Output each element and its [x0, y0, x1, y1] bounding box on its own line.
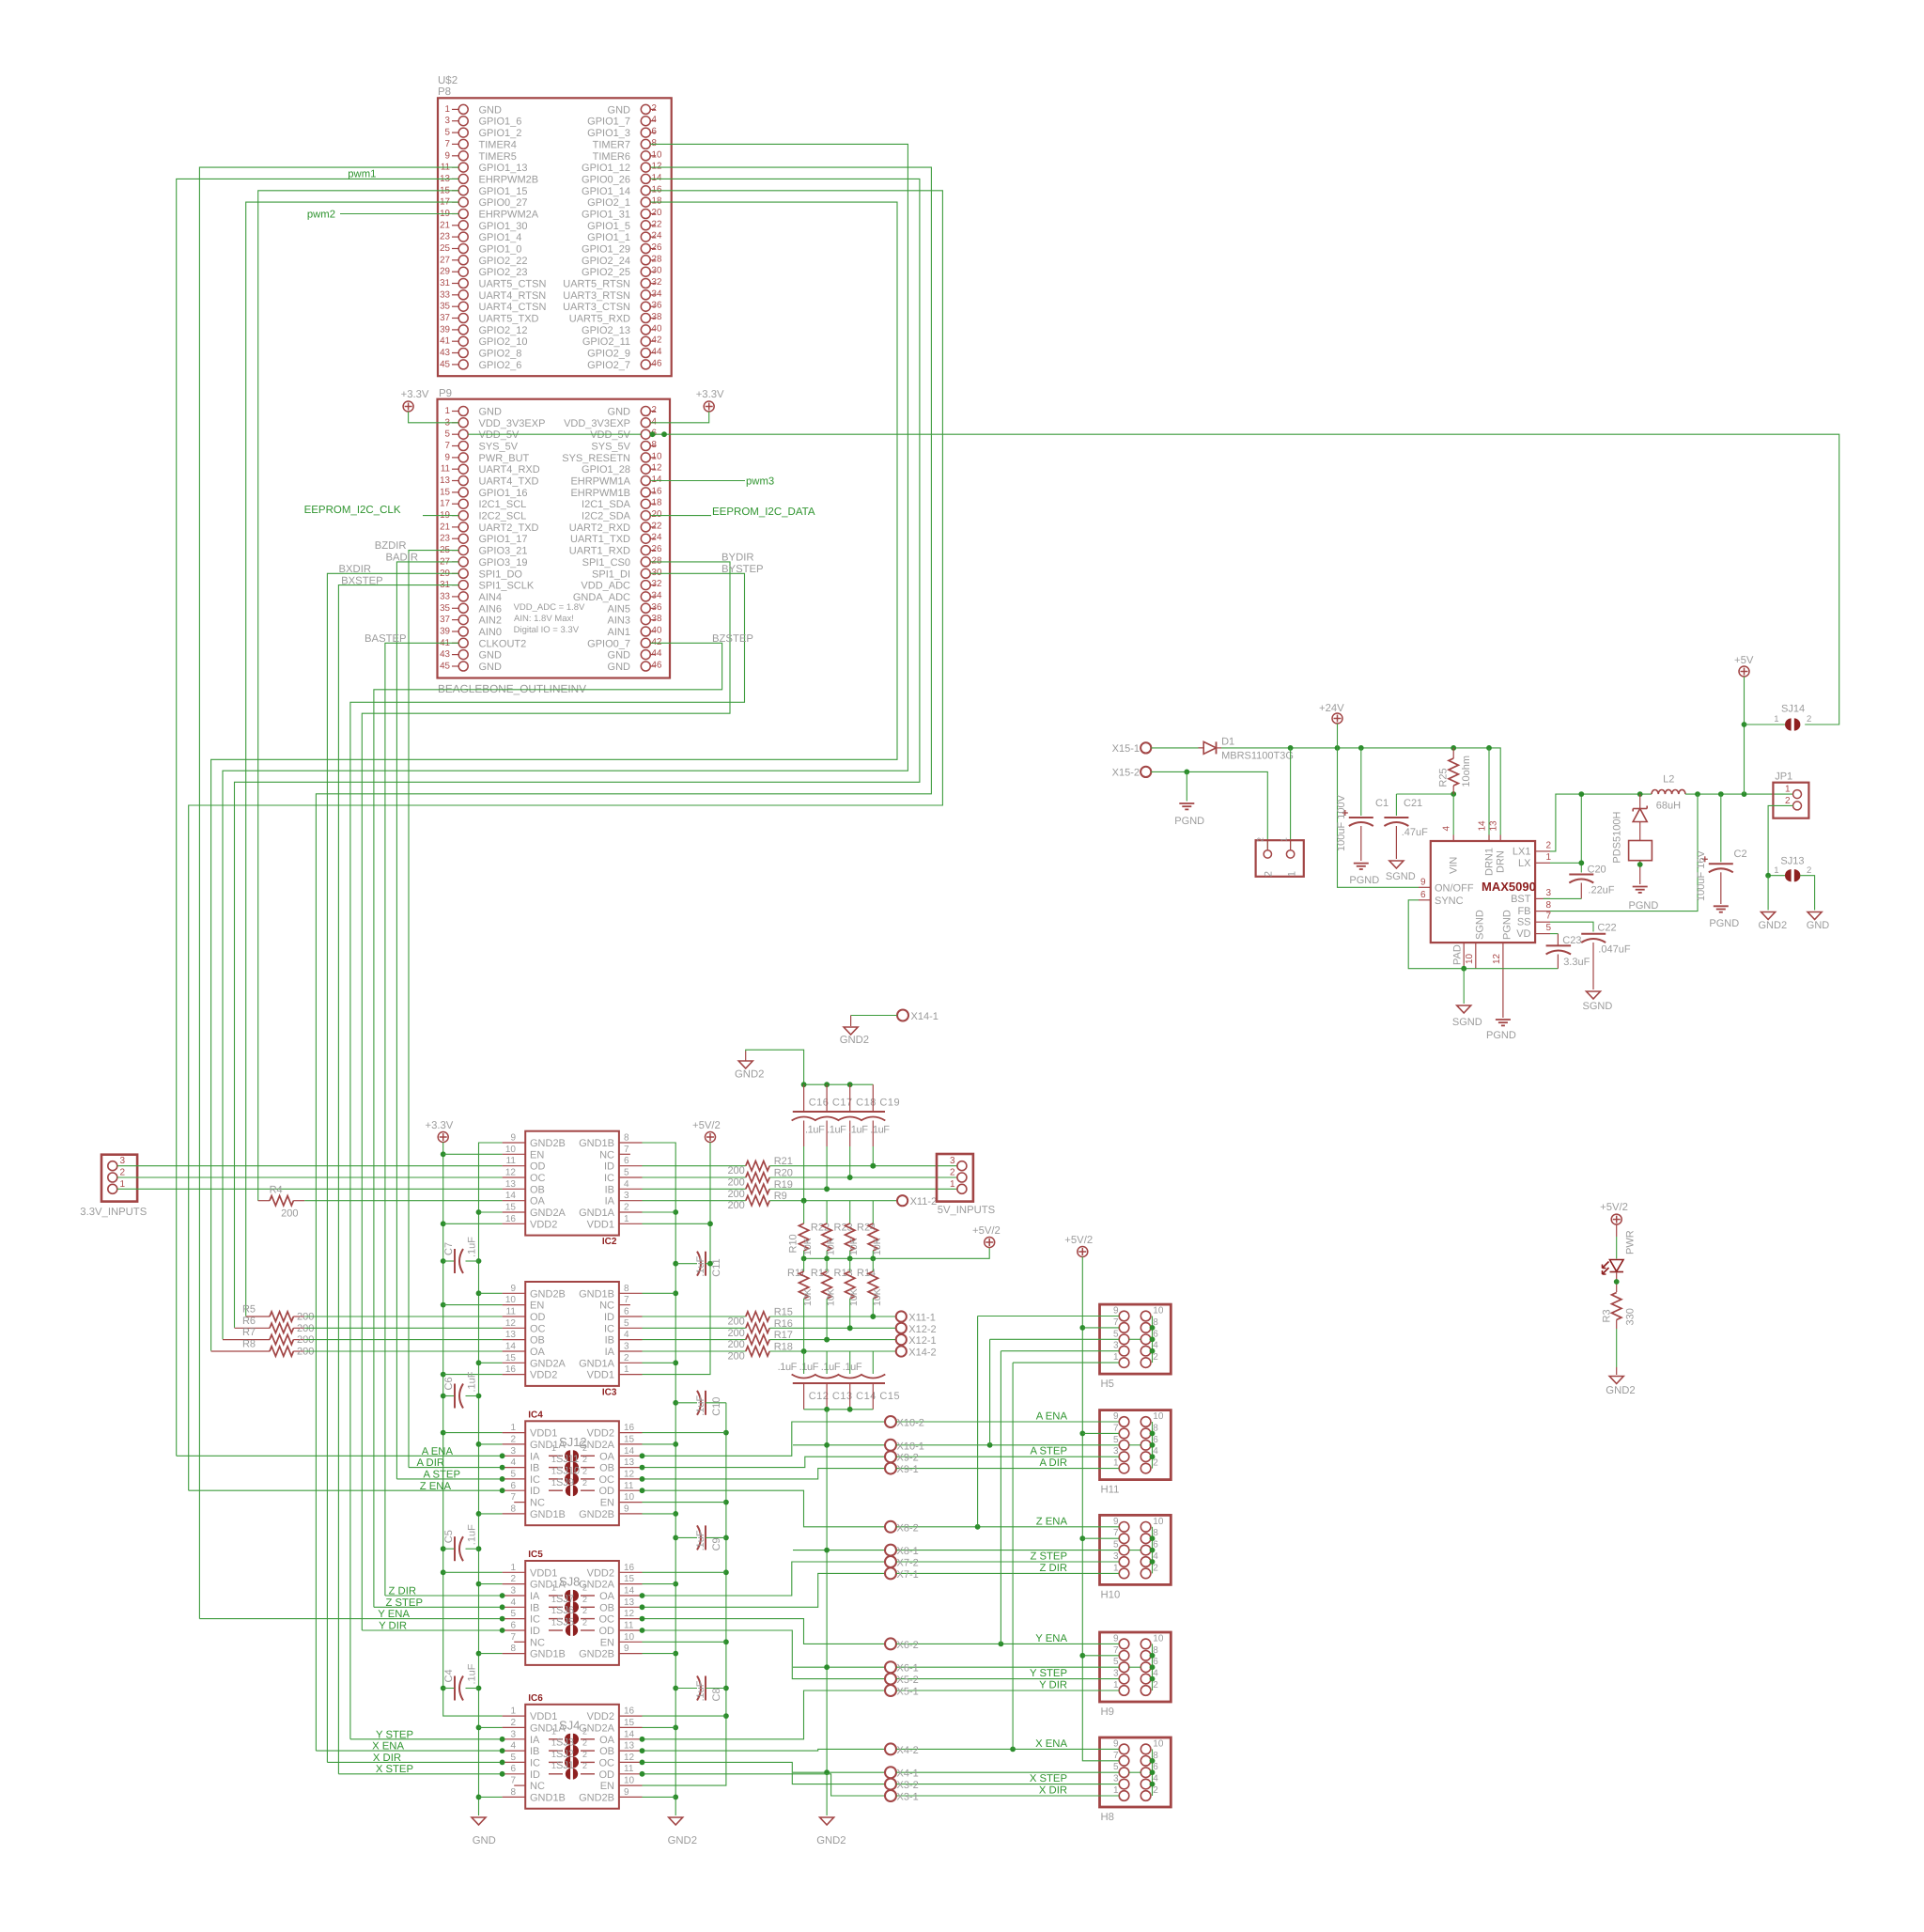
svg-text:7: 7 — [1113, 1317, 1119, 1328]
svg-text:30: 30 — [652, 266, 662, 276]
svg-text:IC: IC — [604, 1323, 614, 1334]
svg-text:2: 2 — [582, 1761, 587, 1770]
svg-text:TIMER5: TIMER5 — [479, 151, 517, 163]
svg-text:BEAGLEBONE_OUTLINEINV: BEAGLEBONE_OUTLINEINV — [438, 682, 586, 695]
IC U1 MAX5090 buck regulator — [1431, 841, 1535, 943]
capacitor C5 .1uF — [443, 1548, 455, 1550]
svg-text:EEPROM_I2C_DATA: EEPROM_I2C_DATA — [712, 506, 815, 518]
svg-text:X11-2: X11-2 — [910, 1196, 938, 1207]
svg-text:OA: OA — [530, 1196, 546, 1207]
svg-text:23: 23 — [440, 534, 450, 544]
net Z STEP input wire — [374, 1606, 503, 1608]
ground GND2 at C16-C19 rail — [738, 1061, 753, 1068]
svg-text:16: 16 — [624, 1563, 635, 1573]
diode D2 PDS5100H — [1639, 794, 1641, 808]
svg-text:7: 7 — [1113, 1423, 1119, 1433]
svg-text:UART3_CTSN: UART3_CTSN — [563, 302, 630, 313]
svg-text:X6-2: X6-2 — [897, 1640, 919, 1651]
ground PGND at pin12 — [1496, 1020, 1511, 1025]
svg-text:NC: NC — [530, 1781, 545, 1792]
svg-text:9: 9 — [1113, 1517, 1119, 1527]
svg-text:26: 26 — [652, 242, 662, 253]
svg-text:Digital IO = 3.3V: Digital IO = 3.3V — [514, 625, 580, 635]
svg-text:9: 9 — [1113, 1411, 1119, 1422]
net wire P8 pin15 — [258, 191, 459, 1201]
svg-text:+3.3V: +3.3V — [401, 389, 429, 400]
svg-text:14: 14 — [652, 475, 662, 485]
svg-text:200: 200 — [727, 1328, 744, 1339]
svg-text:11: 11 — [624, 1481, 634, 1491]
svg-text:5: 5 — [510, 1753, 516, 1763]
svg-text:+5V/2: +5V/2 — [1064, 1235, 1093, 1246]
svg-text:.1uF: .1uF — [695, 1255, 706, 1276]
connector H10 header — [1100, 1515, 1171, 1584]
power +5V/2 at PWR LED — [1611, 1214, 1621, 1224]
svg-text:.1uF: .1uF — [695, 1395, 706, 1416]
svg-text:46: 46 — [652, 661, 662, 671]
wire +3.3V to P9 pin4 — [650, 412, 708, 423]
svg-text:11: 11 — [624, 1764, 634, 1774]
svg-text:6: 6 — [624, 1307, 629, 1317]
svg-text:10: 10 — [624, 1776, 635, 1786]
wire +24V to ON/OFF pin9 — [1338, 748, 1420, 887]
svg-text:43: 43 — [440, 348, 450, 358]
svg-text:10: 10 — [1153, 1411, 1164, 1422]
pad X3-1 net X DIR wire — [643, 1774, 886, 1796]
net A DIR input wire — [409, 1467, 503, 1469]
svg-text:30: 30 — [652, 568, 662, 578]
wire X15-1 to D1 — [1151, 747, 1203, 749]
ground GND2 at X14-1 — [844, 1027, 858, 1035]
ground GND2 bottom left — [669, 1817, 683, 1825]
svg-text:6: 6 — [624, 1156, 629, 1166]
svg-text:GPIO2_10: GPIO2_10 — [479, 336, 528, 348]
svg-text:1: 1 — [551, 1595, 556, 1604]
power +5V/2 at H5 — [1078, 1247, 1088, 1257]
IC IC6 digital isolator — [525, 1705, 619, 1809]
svg-text:10ohm: 10ohm — [1461, 756, 1472, 787]
svg-text:IA: IA — [530, 1451, 540, 1462]
pad X9-2 net A STEP wire — [643, 1457, 886, 1467]
svg-text:GND2B: GND2B — [579, 1509, 614, 1520]
svg-text:24: 24 — [652, 533, 662, 543]
svg-text:10K: 10K — [872, 1238, 883, 1255]
svg-text:Y STEP: Y STEP — [376, 1729, 413, 1740]
svg-text:VDD2: VDD2 — [587, 1711, 614, 1722]
svg-text:AIN3: AIN3 — [608, 615, 630, 627]
net wire P8 pin12 — [316, 167, 931, 1751]
svg-text:9: 9 — [624, 1787, 629, 1798]
svg-text:L2: L2 — [1663, 774, 1674, 786]
svg-text:16: 16 — [624, 1423, 635, 1433]
svg-text:GPIO1_13: GPIO1_13 — [479, 163, 528, 174]
svg-text:ID: ID — [604, 1312, 614, 1323]
svg-text:D1: D1 — [1221, 737, 1234, 748]
svg-text:7: 7 — [624, 1295, 629, 1305]
cap group top rail — [804, 1083, 874, 1085]
svg-text:8: 8 — [510, 1644, 516, 1654]
svg-text:8: 8 — [624, 1133, 629, 1144]
svg-text:+5V/2: +5V/2 — [972, 1225, 1001, 1237]
svg-text:4: 4 — [624, 1330, 629, 1340]
svg-text:BXSTEP: BXSTEP — [341, 576, 383, 587]
svg-text:10K: 10K — [802, 1238, 814, 1255]
svg-text:GPIO1_6: GPIO1_6 — [479, 117, 522, 128]
svg-text:29: 29 — [440, 267, 450, 277]
wire JP1 pin2 to SJ13 — [1768, 805, 1792, 875]
svg-text:EHRPWM2A: EHRPWM2A — [479, 210, 539, 221]
svg-text:SJ4: SJ4 — [559, 1718, 580, 1732]
svg-text:EN: EN — [530, 1301, 544, 1312]
svg-text:C8: C8 — [711, 1688, 722, 1701]
svg-text:VDD_ADC: VDD_ADC — [581, 581, 630, 592]
svg-text:18: 18 — [652, 498, 662, 508]
resistor R25 10ohm — [1452, 748, 1454, 758]
svg-text:12: 12 — [505, 1318, 517, 1329]
net pwm1 wire from P8 pin13 — [177, 179, 459, 1456]
svg-text:OB: OB — [599, 1746, 614, 1757]
svg-text:NC: NC — [599, 1301, 614, 1312]
svg-text:ON/OFF: ON/OFF — [1435, 883, 1474, 895]
svg-text:X10-1: X10-1 — [897, 1441, 924, 1452]
svg-text:2: 2 — [582, 1443, 587, 1453]
wire D1 to +24V rail — [1221, 748, 1500, 835]
svg-text:GND2: GND2 — [1759, 920, 1788, 931]
svg-text:13: 13 — [624, 1457, 635, 1468]
svg-text:7: 7 — [510, 1776, 516, 1786]
svg-text:GND2: GND2 — [668, 1835, 697, 1846]
svg-text:9: 9 — [445, 150, 450, 161]
svg-text:.22uF: .22uF — [1588, 885, 1614, 896]
svg-text:IC2: IC2 — [602, 1237, 617, 1247]
svg-text:28: 28 — [652, 555, 662, 566]
svg-text:pwm3: pwm3 — [746, 476, 774, 488]
svg-text:39: 39 — [440, 324, 450, 335]
svg-text:2: 2 — [510, 1434, 516, 1444]
svg-text:3: 3 — [1113, 1774, 1119, 1784]
svg-text:PWR: PWR — [1624, 1230, 1636, 1254]
net A ENA input wire — [177, 1455, 503, 1457]
svg-text:X DIR: X DIR — [373, 1753, 401, 1764]
svg-text:14: 14 — [624, 1729, 635, 1739]
svg-text:EN: EN — [530, 1149, 544, 1161]
svg-text:Z DIR: Z DIR — [389, 1586, 417, 1597]
svg-text:32: 32 — [652, 277, 662, 288]
net wire P8 pin14 — [235, 179, 920, 1328]
svg-text:UART4_RXD: UART4_RXD — [479, 464, 540, 475]
svg-text:4: 4 — [510, 1741, 516, 1752]
ground GND bottom — [472, 1817, 486, 1825]
ground PGND at PDS5100H — [1633, 887, 1648, 893]
svg-text:1: 1 — [1774, 714, 1778, 724]
connector H8 header — [1100, 1737, 1171, 1807]
svg-text:X11-1: X11-1 — [908, 1313, 936, 1324]
+5V/2 mid rail — [804, 1248, 990, 1259]
wire X15-2 to connector — [1151, 771, 1267, 849]
svg-text:Z STEP: Z STEP — [385, 1597, 423, 1609]
svg-text:3.3V_INPUTS: 3.3V_INPUTS — [80, 1207, 147, 1218]
svg-text:PAD: PAD — [1452, 944, 1464, 965]
wire D1 node to power connector pin1 — [1290, 748, 1292, 849]
svg-text:GPIO1_31: GPIO1_31 — [582, 210, 630, 221]
svg-text:AIN4: AIN4 — [479, 592, 502, 603]
svg-text:GPIO2_7: GPIO2_7 — [587, 360, 630, 371]
wire R9 to pad X11-2 — [769, 1200, 897, 1202]
svg-text:200: 200 — [727, 1200, 744, 1211]
net BASTEP wire from P9 pin41 — [385, 643, 458, 1596]
svg-text:SYS_5V: SYS_5V — [479, 442, 519, 453]
svg-text:UART4_RTSN: UART4_RTSN — [479, 290, 547, 302]
svg-text:4: 4 — [652, 115, 658, 125]
wire R16 to pad X12-2 — [769, 1327, 896, 1329]
svg-text:SJ1: SJ1 — [556, 1760, 574, 1771]
svg-text:13: 13 — [624, 1741, 635, 1752]
svg-text:UART4_TXD: UART4_TXD — [479, 476, 539, 488]
wire +5V/2 rail for IC2 IC3 — [643, 1143, 711, 1375]
svg-text:2: 2 — [950, 1168, 955, 1178]
svg-text:I2C2_SCL: I2C2_SCL — [479, 511, 527, 522]
svg-text:OD: OD — [599, 1486, 615, 1497]
svg-text:10: 10 — [1465, 953, 1475, 964]
svg-text:OC: OC — [599, 1757, 615, 1768]
svg-text:2: 2 — [582, 1466, 587, 1475]
svg-text:SJ14: SJ14 — [1781, 704, 1805, 715]
pad X6-1 GND2 wire — [793, 1666, 885, 1668]
wire H8 gnd column — [1152, 1749, 1154, 1796]
ground SGND under PAD — [1463, 969, 1465, 1004]
connector H5 header — [1100, 1304, 1171, 1374]
svg-text:PGND: PGND — [1174, 816, 1204, 827]
wire H5 pin9 to Z ENA — [978, 1316, 1120, 1317]
svg-text:44: 44 — [652, 648, 662, 659]
pad X8-2 net Z ENA wire — [643, 1490, 886, 1527]
svg-text:.047uF: .047uF — [1598, 944, 1631, 956]
svg-text:GPIO1_1: GPIO1_1 — [587, 232, 630, 243]
svg-text:9: 9 — [624, 1644, 629, 1654]
wire +3.3V rail down ICs — [443, 1143, 503, 1717]
svg-text:P9: P9 — [439, 388, 452, 399]
svg-text:GND1B: GND1B — [530, 1792, 566, 1803]
svg-text:SJ2: SJ2 — [556, 1749, 574, 1760]
svg-text:13: 13 — [624, 1597, 635, 1608]
svg-text:C16 C17 C18 C19: C16 C17 C18 C19 — [809, 1098, 900, 1109]
net Y DIR input wire — [362, 1629, 502, 1631]
svg-text:.1uF .1uF .1uF .1uF: .1uF .1uF .1uF .1uF — [805, 1125, 890, 1136]
svg-text:2: 2 — [582, 1478, 587, 1488]
+5V/2 rail for IC4-IC6 — [643, 1403, 726, 1785]
wire R18 to pad X14-2 — [769, 1350, 896, 1352]
svg-text:A ENA: A ENA — [422, 1446, 454, 1457]
svg-text:31: 31 — [440, 278, 450, 288]
svg-text:7: 7 — [1546, 911, 1552, 922]
svg-text:3: 3 — [1113, 1551, 1119, 1562]
svg-text:VDD_5V: VDD_5V — [479, 429, 520, 441]
svg-text:BZSTEP: BZSTEP — [712, 633, 753, 645]
svg-text:10: 10 — [624, 1492, 635, 1503]
svg-text:GPIO1_29: GPIO1_29 — [582, 244, 630, 256]
ground GND at SJ13 — [1808, 912, 1822, 920]
wire H10 pin5-pin6 — [1129, 1550, 1141, 1551]
svg-text:5: 5 — [624, 1318, 629, 1329]
wire R4 to IC2 OA — [304, 1200, 502, 1202]
IC IC5 digital isolator — [525, 1561, 619, 1665]
connector P9 BeagleBone header — [438, 399, 671, 678]
svg-text:2: 2 — [582, 1726, 587, 1736]
svg-text:2: 2 — [582, 1595, 587, 1604]
svg-text:A STEP: A STEP — [1030, 1446, 1067, 1457]
svg-text:14: 14 — [624, 1586, 635, 1597]
svg-text:200: 200 — [727, 1351, 744, 1363]
svg-text:4: 4 — [510, 1457, 516, 1468]
svg-text:GPIO1_17: GPIO1_17 — [479, 534, 528, 545]
svg-text:OC: OC — [599, 1614, 615, 1626]
svg-text:X15-1: X15-1 — [1112, 743, 1140, 755]
net wire P8 pin18 — [211, 202, 897, 1350]
svg-text:10: 10 — [505, 1145, 517, 1155]
svg-text:2: 2 — [1546, 840, 1552, 850]
svg-text:OD: OD — [530, 1161, 546, 1173]
net Y ENA input wire — [199, 1618, 502, 1620]
svg-text:SYNC: SYNC — [1435, 896, 1464, 907]
svg-text:2: 2 — [624, 1203, 629, 1213]
svg-text:SPI1_CS0: SPI1_CS0 — [582, 557, 630, 569]
svg-text:OA: OA — [599, 1735, 615, 1746]
svg-text:41: 41 — [440, 336, 450, 347]
net wire P8 pin8 TIMER7 — [223, 144, 908, 1339]
svg-text:37: 37 — [440, 615, 450, 625]
net Z ENA input wire — [189, 1489, 503, 1491]
svg-text:5: 5 — [1113, 1657, 1119, 1667]
svg-text:9: 9 — [624, 1504, 629, 1514]
capacitor C4 .1uF — [443, 1688, 455, 1690]
svg-text:5: 5 — [1546, 923, 1552, 933]
GND rail left — [479, 1143, 503, 1815]
svg-text:PDS5100H: PDS5100H — [1612, 812, 1623, 864]
svg-text:OB: OB — [599, 1463, 614, 1474]
pad X14-1 — [897, 1010, 908, 1021]
svg-text:PGND: PGND — [1349, 875, 1379, 886]
ground GND2 at R3 — [1609, 1377, 1623, 1384]
svg-text:1: 1 — [510, 1706, 516, 1717]
capacitor C21 .47uF — [1396, 793, 1453, 795]
capacitor C1 100uF 100V — [1360, 748, 1362, 816]
resistor R6 200 — [235, 1327, 271, 1329]
svg-text:100uF 16V: 100uF 16V — [1696, 850, 1707, 901]
svg-text:9: 9 — [1420, 878, 1426, 888]
capacitor C7 .1uF — [443, 1260, 455, 1262]
svg-text:OA: OA — [530, 1347, 546, 1358]
pad X12-1 — [896, 1334, 907, 1345]
svg-text:pwm1: pwm1 — [348, 169, 376, 180]
svg-text:15: 15 — [505, 1353, 517, 1363]
resistor R5 200 — [246, 1316, 270, 1317]
net X ENA input wire — [316, 1750, 502, 1752]
net wire P8 pin11 — [199, 167, 458, 1619]
svg-text:GPIO2_12: GPIO2_12 — [479, 325, 528, 336]
svg-text:C2: C2 — [1734, 849, 1747, 860]
svg-text:42: 42 — [652, 335, 662, 346]
pad X12-2 — [896, 1323, 907, 1333]
svg-text:GND: GND — [608, 662, 631, 673]
svg-text:2: 2 — [582, 1455, 587, 1464]
svg-text:GND2: GND2 — [735, 1069, 764, 1081]
svg-text:GPIO1_14: GPIO1_14 — [582, 186, 630, 197]
svg-text:IC4: IC4 — [528, 1410, 543, 1420]
svg-text:PWR_BUT: PWR_BUT — [479, 453, 530, 464]
svg-text:C6: C6 — [443, 1377, 455, 1390]
svg-text:R5: R5 — [242, 1304, 256, 1316]
svg-text:1: 1 — [950, 1179, 955, 1190]
wire EN/VDD2 taps from +3.3V rail — [443, 1153, 503, 1155]
svg-text:2: 2 — [1256, 837, 1265, 842]
svg-text:+3.3V: +3.3V — [426, 1120, 454, 1131]
svg-text:Y ENA: Y ENA — [1035, 1633, 1067, 1644]
svg-text:VDD_3V3EXP: VDD_3V3EXP — [564, 418, 630, 429]
svg-text:IC6: IC6 — [528, 1693, 543, 1704]
svg-text:X6-1: X6-1 — [897, 1663, 919, 1675]
svg-text:GPIO1_28: GPIO1_28 — [582, 464, 630, 475]
wire H5 pin5-pin6 — [1129, 1338, 1141, 1340]
svg-text:X12-2: X12-2 — [908, 1324, 936, 1335]
svg-text:2: 2 — [582, 1750, 587, 1759]
svg-text:R10: R10 — [788, 1234, 799, 1253]
svg-text:GND2B: GND2B — [530, 1288, 566, 1300]
svg-text:2: 2 — [652, 405, 657, 415]
svg-text:33: 33 — [440, 289, 450, 300]
wire +5V to rail — [1744, 677, 1746, 794]
wire H5 pin5 to GND2 line — [990, 1338, 1120, 1340]
wire R17 to pad X12-1 — [769, 1339, 896, 1341]
svg-text:Y ENA: Y ENA — [378, 1609, 410, 1620]
svg-text:GND1B: GND1B — [530, 1509, 566, 1520]
resistor R21 200 on ID line — [643, 1165, 746, 1167]
svg-text:3: 3 — [1546, 888, 1552, 898]
connector X2 power jack — [1256, 840, 1304, 877]
svg-text:UART1_RXD: UART1_RXD — [569, 546, 630, 557]
svg-text:GND2A: GND2A — [530, 1358, 566, 1369]
svg-text:GND: GND — [479, 104, 503, 116]
svg-text:6: 6 — [652, 127, 658, 137]
net wire P8 pin16 — [189, 191, 943, 1491]
svg-text:GND1B: GND1B — [530, 1649, 566, 1660]
pad X6-2 net Y ENA wire — [643, 1619, 886, 1644]
svg-text:7: 7 — [510, 1632, 516, 1643]
IC IC2 digital isolator — [525, 1131, 619, 1236]
svg-text:X4-1: X4-1 — [897, 1768, 919, 1780]
resistor R9 200 on IA line — [643, 1200, 746, 1202]
svg-text:3: 3 — [510, 1729, 516, 1739]
svg-text:IB: IB — [530, 1463, 539, 1474]
svg-text:3: 3 — [1113, 1341, 1119, 1351]
svg-text:2: 2 — [1153, 1352, 1158, 1363]
svg-text:LX: LX — [1518, 858, 1531, 869]
svg-text:3: 3 — [120, 1156, 126, 1166]
svg-text:EN: EN — [600, 1781, 614, 1792]
svg-text:IC5: IC5 — [528, 1550, 543, 1560]
svg-text:X5-2: X5-2 — [897, 1675, 919, 1686]
resistor R16 200 on IC3 IC line — [643, 1327, 746, 1329]
svg-text:IA: IA — [530, 1591, 540, 1602]
svg-text:SJ7: SJ7 — [556, 1594, 574, 1605]
svg-text:GPIO0_26: GPIO0_26 — [582, 174, 630, 185]
svg-text:21: 21 — [440, 220, 450, 230]
svg-text:VD: VD — [1516, 928, 1530, 940]
svg-text:3.3uF: 3.3uF — [1563, 957, 1590, 968]
svg-text:CLKOUT2: CLKOUT2 — [479, 638, 527, 649]
svg-text:A DIR: A DIR — [1039, 1457, 1067, 1469]
svg-text:C12 C13 C14 C15: C12 C13 C14 C15 — [809, 1391, 900, 1402]
svg-text:OA: OA — [599, 1451, 615, 1462]
